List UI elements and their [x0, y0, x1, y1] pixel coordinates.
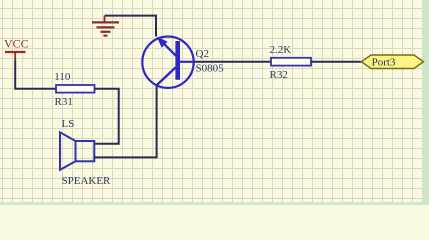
svg-text:2.2K: 2.2K: [270, 44, 292, 56]
ground: [92, 16, 119, 36]
resistor R31: [56, 85, 95, 93]
power symbol VCC: [4, 37, 29, 61]
transistor Q2 (NPN): [142, 37, 194, 88]
svg-text:Port3: Port3: [372, 57, 396, 69]
resistor R32: [271, 58, 311, 66]
svg-text:SPEAKER: SPEAKER: [62, 175, 112, 187]
wire R31 to speaker LS top terminal: [95, 89, 119, 144]
svg-text:110: 110: [54, 71, 71, 83]
wire ground to Q2 emitter: [105, 16, 157, 37]
svg-text:R31: R31: [55, 96, 73, 108]
svg-text:S0805: S0805: [196, 63, 225, 75]
svg-text:LS: LS: [62, 118, 75, 130]
wire Q2 base to R32: [194, 61, 271, 63]
wire R32 to port Port3: [311, 61, 362, 63]
svg-text:Q2: Q2: [196, 48, 209, 60]
svg-text:R32: R32: [270, 69, 288, 81]
wire VCC to R31: [15, 61, 56, 89]
svg-text:VCC: VCC: [4, 37, 29, 51]
wire speaker LS bottom terminal to Q2 collector: [95, 85, 157, 157]
speaker LS: [60, 132, 94, 170]
port Port3: [362, 55, 424, 69]
